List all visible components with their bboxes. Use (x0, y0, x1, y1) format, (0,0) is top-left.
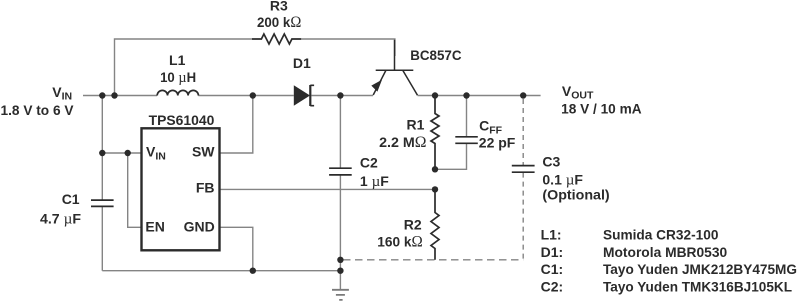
svg-text:FB: FB (196, 180, 215, 196)
svg-text:R2: R2 (404, 217, 422, 233)
svg-text:18 V / 10 mA: 18 V / 10 mA (561, 101, 642, 117)
svg-text:(Optional): (Optional) (542, 187, 609, 203)
svg-text:R3: R3 (270, 0, 288, 14)
svg-text:VOUT: VOUT (562, 83, 594, 102)
svg-text:R1: R1 (407, 116, 425, 132)
svg-text:L1:: L1: (541, 227, 562, 243)
svg-text:GND: GND (184, 218, 215, 234)
svg-text:160 kΩ: 160 kΩ (377, 233, 423, 250)
svg-text:2.2 MΩ: 2.2 MΩ (379, 134, 426, 151)
svg-text:C2: C2 (360, 155, 378, 171)
svg-text:Tayo Yuden JMK212BY475MG: Tayo Yuden JMK212BY475MG (603, 261, 797, 277)
svg-text:Sumida CR32-100: Sumida CR32-100 (603, 227, 719, 243)
svg-text:200 kΩ: 200 kΩ (257, 14, 301, 31)
svg-text:C1:: C1: (541, 261, 564, 277)
svg-text:CFF: CFF (479, 118, 503, 137)
svg-text:TPS61040: TPS61040 (149, 112, 215, 128)
svg-text:D1:: D1: (541, 244, 564, 260)
svg-text:10 µH: 10 µH (160, 69, 196, 86)
svg-text:C1: C1 (62, 191, 80, 207)
svg-text:22 pF: 22 pF (479, 135, 516, 151)
svg-text:1.8 V to 6 V: 1.8 V to 6 V (1, 102, 75, 118)
svg-text:Motorola MBR0530: Motorola MBR0530 (603, 244, 727, 260)
svg-text:BC857C: BC857C (410, 47, 461, 63)
svg-text:EN: EN (145, 218, 164, 234)
svg-text:Tayo Yuden TMK316BJ105KL: Tayo Yuden TMK316BJ105KL (603, 279, 792, 295)
svg-text:SW: SW (192, 144, 215, 160)
svg-text:4.7 µF: 4.7 µF (40, 211, 81, 228)
svg-text:L1: L1 (169, 52, 186, 68)
svg-text:D1: D1 (293, 55, 311, 71)
svg-text:VIN: VIN (52, 84, 72, 103)
svg-text:1 µF: 1 µF (360, 173, 389, 190)
svg-text:C3: C3 (542, 154, 560, 170)
svg-text:C2:: C2: (541, 279, 564, 295)
